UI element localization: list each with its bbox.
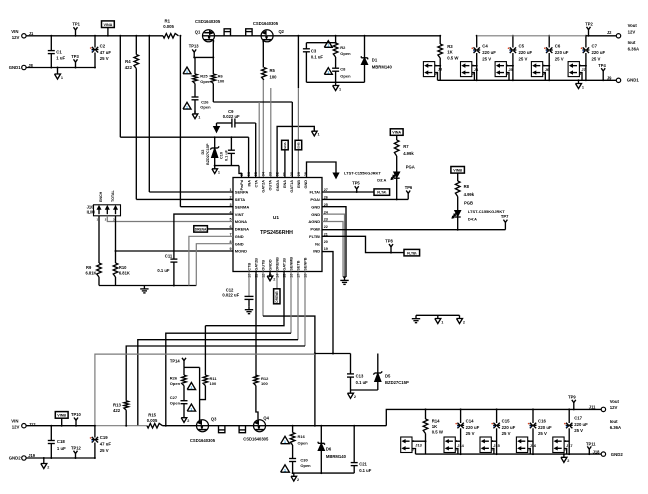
- wire SETA from R4 to pin 2: [135, 69, 137, 200]
- svg-text:MBRM140: MBRM140: [372, 64, 393, 69]
- wire gate node B: [184, 366, 200, 368]
- svg-text:VINB: VINB: [57, 414, 66, 418]
- resistor R16 Open: [292, 426, 294, 433]
- wire VOUTB rail: [266, 425, 387, 427]
- svg-text:25 V: 25 V: [466, 431, 475, 436]
- svg-text:12V: 12V: [628, 29, 636, 34]
- capacitor C7 220uF: [585, 36, 587, 48]
- wire MONA J10 pin2 to pin 5: [107, 216, 233, 222]
- svg-text:INA: INA: [247, 180, 251, 187]
- wire LED D3 to pin 26 PGA: [396, 178, 398, 199]
- svg-text:37: 37: [240, 172, 244, 176]
- svg-text:TP9: TP9: [568, 395, 576, 400]
- svg-text:C15: C15: [502, 419, 510, 424]
- svg-text:2: 2: [187, 419, 189, 423]
- svg-text:R10: R10: [119, 265, 127, 270]
- connector J15 bottom: [480, 437, 491, 453]
- svg-text:ENA: ENA: [283, 141, 287, 148]
- wire GND1 bottom input: [26, 67, 95, 69]
- wire clamp gnd bottom: [293, 472, 355, 474]
- svg-text:PGB: PGB: [464, 201, 473, 206]
- capacitor C19 47uF: [94, 426, 96, 438]
- svg-text:30: 30: [290, 172, 294, 176]
- diode D6 MBRM140: [320, 426, 322, 443]
- svg-text:19: 19: [324, 247, 328, 251]
- svg-text:0.1 uF: 0.1 uF: [157, 268, 170, 273]
- connector J9 GND1: [616, 78, 620, 82]
- wire GND1 output rail: [438, 79, 617, 81]
- wire gate node B to Q3 gate: [199, 367, 201, 420]
- svg-text:220 uF: 220 uF: [482, 50, 496, 55]
- svg-text:20: 20: [324, 240, 328, 244]
- connector J14 bottom: [444, 437, 455, 453]
- wire GAT1B feed to R11: [204, 326, 206, 375]
- jumper between Q3 Q4 right: [239, 426, 245, 433]
- capacitor C1: [50, 36, 52, 51]
- svg-text:Open: Open: [298, 440, 309, 445]
- resistor R10 6.81K: [113, 263, 118, 277]
- svg-text:J11: J11: [589, 405, 596, 410]
- zener D5 BZD27C15P: [377, 354, 379, 373]
- svg-text:GND2: GND2: [611, 452, 624, 457]
- svg-text:SENMA: SENMA: [235, 204, 250, 209]
- svg-text:U1: U1: [273, 215, 279, 221]
- svg-text:25 V: 25 V: [519, 56, 528, 61]
- resistor R25 Open: [194, 57, 196, 74]
- svg-text:Q2: Q2: [279, 29, 285, 34]
- svg-text:0.022 uF: 0.022 uF: [222, 292, 239, 297]
- svg-text:12V: 12V: [610, 405, 618, 410]
- svg-text:D6: D6: [326, 447, 332, 452]
- note triangle 1 near R2: [324, 41, 332, 48]
- connector J5: [495, 62, 506, 77]
- connector J3: [423, 62, 434, 77]
- capacitor C18 1uF: [50, 426, 52, 441]
- net label VINB bottom: [55, 412, 68, 419]
- power arrow VINT at C9: [217, 122, 221, 124]
- wire PGB pin 22: [322, 229, 505, 231]
- wire IND pin 19 to VINB: [322, 252, 333, 354]
- svg-text:1: 1: [198, 115, 200, 119]
- svg-text:C8: C8: [340, 66, 346, 71]
- svg-text:GNDD: GNDD: [269, 259, 273, 270]
- svg-text:28: 28: [304, 172, 308, 176]
- note triangle 1 near C27: [187, 404, 195, 411]
- svg-text:SETA: SETA: [235, 197, 245, 202]
- wire OUTB down to rail: [314, 354, 316, 426]
- svg-text:GND: GND: [235, 241, 244, 246]
- svg-text:C6: C6: [555, 44, 561, 49]
- svg-text:0.1 uF: 0.1 uF: [225, 149, 229, 161]
- svg-text:C3: C3: [311, 49, 317, 54]
- svg-text:C1: C1: [56, 50, 62, 55]
- resistor R4 422: [135, 36, 137, 55]
- note triangle 1 near C30: [281, 465, 290, 472]
- wire VINA rail segments at FETs: [215, 35, 262, 37]
- svg-text:0.022 uF: 0.022 uF: [223, 114, 240, 119]
- svg-text:TP4: TP4: [598, 63, 606, 68]
- svg-text:1: 1: [441, 320, 443, 324]
- svg-text:C7: C7: [592, 44, 598, 49]
- wire R5 to GAT pin: [262, 80, 264, 178]
- svg-text:36: 36: [247, 172, 251, 176]
- connector J11 Vout bottom: [601, 407, 605, 411]
- svg-text:D3:A: D3:A: [377, 177, 386, 182]
- svg-text:C27: C27: [170, 395, 178, 400]
- svg-text:VINT: VINT: [235, 212, 245, 217]
- wire between Q3 Q4: [209, 425, 254, 427]
- svg-text:100: 100: [261, 381, 268, 386]
- connector J17 bottom: [553, 437, 564, 453]
- svg-text:C21: C21: [359, 461, 367, 466]
- note triangle 1 near R16: [281, 436, 290, 443]
- svg-text:R1: R1: [165, 18, 171, 23]
- ground 1 under C26: [194, 111, 196, 114]
- svg-text:J12: J12: [29, 422, 37, 427]
- svg-text:DRENA: DRENA: [195, 228, 207, 232]
- capacitor C17 220uF bottom: [568, 409, 570, 423]
- svg-text:D4:A: D4:A: [468, 216, 477, 221]
- svg-text:R11: R11: [210, 376, 218, 381]
- resistor R1 0.005 sense: [163, 34, 179, 39]
- svg-text:100: 100: [210, 381, 217, 386]
- wire GAT2B pin 11 to R12: [255, 272, 257, 378]
- svg-text:C18: C18: [57, 439, 65, 444]
- svg-text:Q1: Q1: [195, 30, 201, 35]
- svg-text:GND: GND: [304, 180, 308, 189]
- net label FLTB: [404, 249, 420, 256]
- wire R8 to LED D4: [457, 197, 459, 211]
- svg-text:GND2: GND2: [9, 456, 22, 461]
- svg-text:J18: J18: [593, 449, 601, 454]
- ground 2 clamp: [350, 390, 352, 393]
- svg-text:TP1: TP1: [72, 21, 80, 26]
- svg-text:J17: J17: [566, 443, 573, 448]
- resistor R13 422: [124, 401, 129, 410]
- svg-text:R2: R2: [340, 45, 346, 50]
- capacitor C3 0.1uF: [306, 42, 335, 44]
- wire SETB pin 17 bus: [297, 272, 299, 340]
- svg-text:GND: GND: [311, 204, 320, 209]
- svg-text:FLTA\: FLTA\: [377, 191, 386, 195]
- ground 2 under C27: [183, 415, 185, 418]
- svg-text:Open: Open: [300, 463, 311, 468]
- wire pin 8 GND: [196, 244, 233, 286]
- svg-text:1: 1: [61, 76, 63, 80]
- svg-text:PGB\: PGB\: [310, 227, 321, 232]
- wire LED D4 to pin 22 PGB: [457, 217, 459, 230]
- svg-text:C26: C26: [201, 99, 209, 104]
- svg-text:J7: J7: [581, 67, 585, 72]
- note triangle 1 near C8: [324, 68, 332, 75]
- svg-text:2: 2: [354, 395, 356, 399]
- svg-text:ENCH: ENCH: [99, 191, 103, 202]
- connector J16 bottom: [516, 437, 527, 453]
- svg-text:220 uF: 220 uF: [592, 50, 606, 55]
- svg-text:MONA: MONA: [235, 219, 247, 224]
- svg-text:FLTA\: FLTA\: [309, 190, 321, 195]
- note triangle 1 near R25: [183, 67, 191, 74]
- ground 1 under D2: [214, 166, 216, 169]
- connector J7: [568, 62, 579, 77]
- wire GND2 output rail: [416, 453, 602, 455]
- svg-text:1 uF: 1 uF: [57, 446, 66, 451]
- wire GAT1B pin 15 bus: [205, 272, 284, 326]
- svg-text:R26: R26: [170, 376, 178, 381]
- svg-text:CTA: CTA: [254, 180, 258, 188]
- svg-text:6.81K: 6.81K: [86, 271, 97, 276]
- svg-text:C14: C14: [466, 419, 474, 424]
- LED D4 LTST-C155KGJRKT: [455, 211, 461, 217]
- svg-text:220 uF: 220 uF: [574, 422, 588, 427]
- svg-text:1: 1: [229, 188, 231, 192]
- svg-text:2: 2: [273, 277, 275, 281]
- svg-text:Open: Open: [170, 400, 181, 405]
- svg-text:25 V: 25 V: [502, 431, 511, 436]
- svg-text:R4: R4: [125, 59, 131, 64]
- svg-text:GAT2A: GAT2A: [262, 180, 266, 193]
- svg-text:C11: C11: [165, 253, 173, 258]
- svg-text:Open: Open: [340, 51, 351, 56]
- svg-text:29: 29: [297, 172, 301, 176]
- svg-text:33: 33: [268, 172, 272, 176]
- svg-text:25 V: 25 V: [100, 56, 109, 61]
- svg-text:GAT1B: GAT1B: [283, 258, 287, 271]
- net label VINA: [102, 21, 115, 28]
- svg-text:32: 32: [276, 172, 280, 176]
- svg-text:R9: R9: [86, 265, 92, 270]
- svg-text:FLTB\: FLTB\: [407, 251, 416, 255]
- svg-text:47 uF: 47 uF: [100, 442, 112, 447]
- capacitor C21 0.1uF: [353, 426, 355, 463]
- net label DRENA: [207, 228, 233, 230]
- svg-text:3: 3: [229, 203, 231, 207]
- svg-text:GND1: GND1: [9, 65, 22, 70]
- capacitor C26 Open: [192, 96, 199, 98]
- svg-text:2: 2: [567, 459, 569, 463]
- svg-text:TP7: TP7: [501, 214, 509, 219]
- jumper between Q1 Q2 right: [246, 29, 252, 36]
- svg-text:R12: R12: [261, 376, 269, 381]
- svg-text:C10: C10: [220, 152, 224, 159]
- svg-text:1: 1: [218, 170, 220, 174]
- connector J2 Vout: [616, 34, 620, 38]
- wire pin 7 GND: [189, 236, 233, 285]
- svg-text:CTB: CTB: [248, 263, 252, 271]
- svg-text:0.1 uF: 0.1 uF: [359, 468, 372, 473]
- svg-text:22: 22: [324, 225, 328, 229]
- svg-text:Open: Open: [340, 74, 351, 79]
- svg-text:DRENB: DRENB: [275, 291, 279, 303]
- wire R7 to LED: [396, 156, 398, 172]
- svg-text:TOTAL: TOTAL: [111, 190, 115, 202]
- earth ground left: [143, 286, 145, 289]
- svg-text:Q4: Q4: [263, 415, 269, 420]
- connector J4: [461, 62, 472, 77]
- svg-text:422: 422: [125, 65, 133, 70]
- svg-text:MOND: MOND: [235, 249, 247, 254]
- svg-text:C5: C5: [519, 44, 525, 49]
- wire SENPB pin 18 bus: [304, 272, 306, 347]
- svg-text:CSD1640305: CSD1640305: [253, 21, 279, 26]
- svg-text:VINB: VINB: [453, 169, 462, 173]
- net label FLTA: [374, 189, 390, 195]
- svg-text:TP11: TP11: [586, 441, 596, 446]
- svg-text:4.99k: 4.99k: [464, 192, 475, 197]
- svg-text:C13: C13: [356, 374, 364, 379]
- ground 1 output: [578, 80, 580, 83]
- resistor R9 6.81K: [97, 263, 102, 277]
- svg-text:D5: D5: [385, 374, 391, 379]
- svg-text:TP2: TP2: [585, 22, 593, 27]
- svg-text:R3: R3: [447, 44, 453, 49]
- wire VOUTB step up: [386, 409, 601, 425]
- svg-text:4.99k: 4.99k: [403, 151, 414, 156]
- net label ENB: [297, 36, 299, 88]
- svg-text:R13: R13: [113, 402, 121, 407]
- ground 2 input: [43, 458, 45, 464]
- wire pin 28 power arrow: [307, 162, 337, 178]
- svg-text:422: 422: [113, 408, 121, 413]
- svg-text:Vout: Vout: [628, 23, 638, 28]
- capacitor C2 47uF: [94, 36, 96, 48]
- svg-text:CSD1640305: CSD1640305: [243, 437, 269, 442]
- net label VINB above R8: [451, 167, 465, 174]
- svg-text:C16: C16: [538, 419, 546, 424]
- earth ground trio: [415, 315, 417, 318]
- svg-text:BZD27C15P: BZD27C15P: [385, 380, 409, 385]
- svg-text:CSD1640305: CSD1640305: [195, 19, 221, 24]
- note triangle 1 near C26: [183, 102, 191, 109]
- wire VINB rail: [26, 425, 95, 427]
- svg-text:OUTB: OUTB: [262, 260, 266, 271]
- svg-text:1K: 1K: [447, 50, 453, 55]
- svg-text:C2: C2: [100, 44, 106, 49]
- svg-text:1 uF: 1 uF: [56, 56, 65, 61]
- wire PGA pin 26: [322, 198, 408, 200]
- svg-text:SENMB: SENMB: [290, 257, 294, 271]
- resistor R8 4.99k: [455, 181, 460, 197]
- svg-text:Iout: Iout: [628, 40, 636, 45]
- resistor R26 Open: [183, 367, 185, 375]
- wire MOND to pin 9: [116, 250, 234, 252]
- svg-text:Open: Open: [200, 79, 211, 84]
- svg-text:MBRM140: MBRM140: [326, 454, 347, 459]
- wire clamp bottom: [351, 389, 378, 391]
- wire rail to Q3: [163, 425, 197, 427]
- net label ENA: [284, 150, 286, 178]
- svg-text:25 V: 25 V: [555, 56, 564, 61]
- svg-text:Vout: Vout: [610, 399, 620, 404]
- wire VINA rail top: [26, 35, 163, 37]
- ground 2 output: [563, 454, 565, 457]
- connector J6: [531, 62, 542, 77]
- svg-text:GND: GND: [235, 234, 244, 239]
- svg-text:0.005: 0.005: [163, 24, 174, 29]
- svg-text:TP12: TP12: [71, 445, 82, 450]
- svg-text:0.5 W: 0.5 W: [432, 430, 444, 435]
- ground 1 GNDA: [313, 128, 315, 131]
- svg-text:25 V: 25 V: [482, 56, 491, 61]
- svg-text:6.81K: 6.81K: [119, 271, 130, 276]
- capacitor C16 220uF bottom: [532, 409, 534, 423]
- resistor R12 100: [254, 375, 259, 386]
- svg-text:35: 35: [254, 172, 258, 176]
- ground 2 under C30: [293, 473, 295, 476]
- wire J10 pin1 to R9: [98, 216, 100, 263]
- svg-text:1: 1: [582, 85, 584, 89]
- svg-text:2: 2: [229, 196, 231, 200]
- svg-text:PGA: PGA: [406, 165, 415, 170]
- svg-text:AGND: AGND: [308, 219, 320, 224]
- svg-text:TP10: TP10: [71, 412, 82, 417]
- wire SENPA sense to pin 1: [148, 36, 150, 192]
- wire VINT pin 4 to C11: [174, 214, 233, 259]
- wire SENMA sense to pin 3: [179, 36, 181, 207]
- svg-text:12V: 12V: [12, 35, 20, 40]
- svg-text:DRENB: DRENB: [276, 257, 280, 271]
- svg-text:220 uF: 220 uF: [502, 425, 516, 430]
- svg-text:Iout: Iout: [610, 419, 618, 424]
- svg-text:IND: IND: [313, 249, 320, 254]
- svg-text:1: 1: [318, 133, 320, 137]
- svg-text:J13: J13: [415, 443, 422, 448]
- svg-text:VIN: VIN: [11, 29, 18, 34]
- ground 2 pin 13: [269, 272, 271, 277]
- ground 1 trio: [437, 315, 439, 318]
- svg-text:CSD1640305: CSD1640305: [190, 438, 216, 443]
- svg-text:25 V: 25 V: [592, 56, 601, 61]
- wire clamp top: [315, 353, 351, 355]
- svg-text:Nc: Nc: [315, 241, 321, 246]
- net label VINA above R7: [390, 129, 403, 136]
- svg-text:TP3: TP3: [71, 54, 79, 59]
- svg-text:SENPB: SENPB: [304, 257, 308, 270]
- svg-text:2: 2: [463, 320, 465, 324]
- wire SENAB pin 16 bus: [290, 272, 292, 334]
- svg-text:FLTB\: FLTB\: [309, 234, 321, 239]
- svg-text:LTST-C155KGJRKT: LTST-C155KGJRKT: [468, 209, 505, 214]
- resistor R6 100: [212, 57, 214, 74]
- wire VINA to D2 clamp: [119, 36, 121, 137]
- wire analog gnd bus: [99, 285, 196, 287]
- svg-text:R5: R5: [270, 68, 276, 73]
- svg-text:D2: D2: [201, 150, 205, 155]
- svg-text:TP8: TP8: [385, 238, 393, 243]
- wire VINA rail grey segment: [477, 35, 586, 37]
- earth ground AGND: [344, 277, 346, 280]
- svg-text:PwPd: PwPd: [240, 179, 244, 190]
- wire FLTB pin 21: [322, 236, 404, 252]
- svg-text:PGA\: PGA\: [310, 197, 321, 202]
- svg-text:GND1: GND1: [627, 78, 640, 83]
- connector J13: [401, 437, 412, 453]
- ground trio wire: [416, 314, 460, 316]
- net label DRENB: [276, 272, 278, 289]
- svg-text:BZD27C15P: BZD27C15P: [206, 143, 210, 165]
- diode D1 MBRM140: [364, 36, 366, 58]
- wire GNDA to ground: [277, 126, 314, 177]
- resistor R5 100: [262, 41, 264, 67]
- svg-text:R7: R7: [403, 144, 409, 149]
- svg-text:47 uF: 47 uF: [100, 50, 112, 55]
- svg-text:TP5: TP5: [352, 181, 360, 186]
- svg-text:0.5 W: 0.5 W: [447, 56, 459, 61]
- svg-text:ENB: ENB: [297, 180, 301, 188]
- svg-text:TP13: TP13: [189, 44, 200, 49]
- svg-text:GAT1A: GAT1A: [290, 180, 294, 193]
- svg-text:6.36A: 6.36A: [610, 425, 621, 430]
